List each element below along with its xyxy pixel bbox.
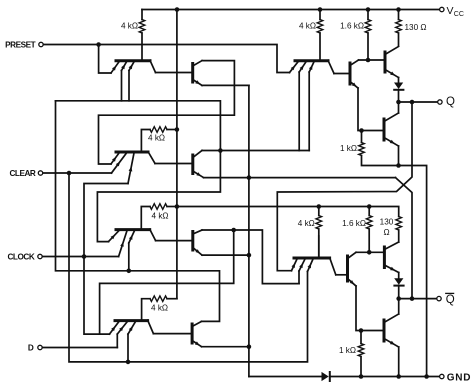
transistor Q1 emitter 1 <box>111 62 119 73</box>
node Vcc-R6 <box>366 7 371 12</box>
terminal GND <box>440 374 444 378</box>
node master-Q4e3 <box>127 269 132 274</box>
transistor Q1 emitter 3 <box>129 62 134 101</box>
transistor Q9 emitter 3 <box>309 62 314 151</box>
svg-text:1.6 kΩ: 1.6 kΩ <box>342 219 366 228</box>
wire Q9 collector to Q10 base <box>334 73 350 75</box>
transistor Q1 emitter 2 <box>121 62 126 101</box>
wire lower Vcc rail <box>177 207 399 217</box>
transistor Q7 emitter 2 <box>117 322 127 348</box>
terminal D <box>38 345 42 349</box>
svg-text:PRESET: PRESET <box>5 40 36 49</box>
node mesh-Q6e <box>247 253 252 258</box>
node R8 top <box>359 128 364 133</box>
node R9 Vcc <box>317 204 322 209</box>
resistor R4 4k <box>142 296 177 321</box>
node base Q11 <box>366 58 371 63</box>
wire clear <box>43 172 112 174</box>
transistor Q5 emitter 2 <box>119 231 127 257</box>
transistor Q7 emitter 1 <box>110 322 119 335</box>
transistor Q7 bar <box>115 319 148 322</box>
transistor Q12 collector <box>384 102 399 122</box>
node Q-X <box>410 100 415 105</box>
transistor Q3 emitter 1 <box>111 153 119 164</box>
transistor Q4 collector <box>193 151 202 158</box>
wire Q7 collector to Q8 base <box>153 333 191 335</box>
wire Q10 collector to node <box>359 59 386 61</box>
wire clock <box>43 256 119 258</box>
transistor Q4 bar <box>191 155 194 174</box>
node Q12 emitter <box>396 163 401 168</box>
transistor Q8 collector <box>192 321 201 326</box>
resistor R7 130 <box>396 10 402 47</box>
svg-text:CC: CC <box>454 11 464 18</box>
svg-text:1.6 kΩ: 1.6 kΩ <box>340 22 364 31</box>
svg-text:4 kΩ: 4 kΩ <box>148 133 165 142</box>
wire preset to Q1 e1 <box>99 45 111 74</box>
resistor R9 4k <box>316 207 322 257</box>
transistor Q16 emitter <box>384 339 399 377</box>
label R3 4k <box>152 211 169 220</box>
terminal CLOCK <box>38 254 42 258</box>
transistor Q11 bar <box>384 52 387 72</box>
transistor Q8 emitter <box>192 341 202 347</box>
label R2 4k <box>148 133 165 142</box>
svg-text:4 kΩ: 4 kΩ <box>298 219 315 228</box>
node Q4coll-junction <box>218 148 223 153</box>
node Vcc-R5 <box>318 7 323 12</box>
wire emitter mesh <box>248 85 250 376</box>
diode D1 <box>249 372 440 381</box>
transistor Q1 collector <box>150 60 156 72</box>
node clock <box>82 254 87 259</box>
transistor Q6 bar <box>191 232 194 251</box>
transistor Q5 bar <box>116 228 150 231</box>
node Q6coll-junction <box>231 228 236 233</box>
wire clear down <box>69 173 308 362</box>
node Vcc-R7 <box>396 7 401 12</box>
node R12 top <box>359 328 364 333</box>
node Q-diode <box>396 100 401 105</box>
svg-text:4 kΩ: 4 kΩ <box>121 22 138 31</box>
node GND R12 <box>359 374 364 379</box>
transistor Q3 emitter 3 <box>84 153 134 334</box>
node GND Q16 <box>396 374 401 379</box>
terminal Q <box>438 100 442 104</box>
svg-text:D: D <box>28 343 34 352</box>
resistor R12 1k <box>358 331 364 377</box>
resistor R5 4k <box>317 10 323 60</box>
node clear <box>67 171 72 176</box>
svg-text:V: V <box>447 5 454 17</box>
node R3 Vcc <box>175 204 180 209</box>
transistor Q13 emitter 3 <box>308 259 314 272</box>
transistor Q9 collector <box>328 60 334 73</box>
wire Q6 collector line <box>202 230 299 284</box>
wire Vcc center <box>176 10 178 299</box>
transistor Q5 emitter 1 <box>109 231 120 242</box>
svg-text:1 kΩ: 1 kΩ <box>339 346 356 355</box>
transistor Q7 emitter 3 <box>128 322 136 362</box>
transistor Q2 emitter <box>193 80 202 86</box>
label QBAR <box>446 293 455 306</box>
wire Q4 emitter line <box>204 177 396 179</box>
wire R9 to Q13 base <box>318 236 320 257</box>
transistor Q4 emitter <box>193 171 204 178</box>
svg-text:4 kΩ: 4 kΩ <box>299 22 316 31</box>
resistor R2 4k <box>141 127 177 152</box>
label R9 4k <box>298 219 315 228</box>
wire Q14 collector to node <box>356 251 384 253</box>
node R2 Vcc <box>175 127 180 132</box>
node QBAR-diode <box>396 296 401 301</box>
transistor Q13 emitter 2 <box>299 259 305 284</box>
wire Q1 collector to Q2 base <box>156 72 193 74</box>
label R10 1.6k <box>342 219 366 228</box>
wire D <box>43 347 118 349</box>
node preset <box>96 42 101 47</box>
transistor Q3 bar <box>116 151 148 154</box>
transistor Q8 bar <box>191 324 194 343</box>
transistor Q9 emitter 2 <box>299 62 306 151</box>
wire Q3 collector to Q4 base <box>155 163 192 165</box>
node GND R8 <box>424 374 429 379</box>
transistor Q9 emitter 1 <box>290 62 299 73</box>
transistor Q6 collector <box>193 230 202 234</box>
transistor Q5 collector <box>150 229 156 241</box>
resistor R3 4k <box>141 204 177 230</box>
wire Q6 emitter line <box>202 254 249 256</box>
svg-text:1 kΩ: 1 kΩ <box>340 144 357 153</box>
transistor Q15 collector <box>384 242 398 250</box>
transistor Q16 collector <box>384 299 399 323</box>
wire X to QBAR <box>396 178 413 299</box>
wire master clock branch <box>100 230 234 334</box>
node Vcc-R1 <box>175 7 180 12</box>
wire Q2 collector feedback <box>99 61 235 164</box>
transistor Q12 bar <box>383 119 386 140</box>
transistor Q7 collector <box>148 320 154 334</box>
wire Q5 collector to Q6 base <box>156 240 193 242</box>
transistor Q14 bar <box>346 256 349 281</box>
terminal VCC <box>440 7 444 11</box>
svg-text:Q: Q <box>446 96 455 108</box>
terminal QBAR <box>437 296 441 300</box>
transistor Q15 bar <box>383 247 386 268</box>
node R10 Vcc <box>367 204 372 209</box>
wire Q to X <box>277 102 412 271</box>
transistor Q12 emitter <box>384 138 399 166</box>
label R11 130 <box>380 218 394 238</box>
transistor Q11 collector <box>385 47 399 55</box>
diode D3 <box>394 273 403 299</box>
label D <box>28 343 34 352</box>
label R4 4k <box>151 304 168 313</box>
label CLOCK <box>7 252 34 261</box>
label VCC <box>447 5 464 18</box>
transistor Q9 bar <box>295 59 328 62</box>
node mesh-Q8e <box>247 344 252 349</box>
transistor Q3 collector <box>148 152 155 164</box>
label R6 1.6k <box>340 22 364 31</box>
wire master node B <box>56 101 220 322</box>
svg-text:4 kΩ: 4 kΩ <box>152 211 169 220</box>
transistor Q10 emitter <box>350 82 362 131</box>
transistor Q5 emitter 3 <box>129 231 135 271</box>
svg-text:130 Ω: 130 Ω <box>405 23 427 32</box>
node clear-Q7e3 <box>126 360 131 365</box>
terminal PRESET <box>39 42 43 46</box>
resistor R8 1k <box>359 131 427 377</box>
resistor R10 1.6k <box>366 207 372 253</box>
diode D2 <box>394 78 403 103</box>
label PRESET <box>5 40 36 49</box>
wire Vcc rail <box>142 9 439 11</box>
transistor Q14 emitter <box>348 279 362 331</box>
wire QBAR output <box>399 298 437 300</box>
svg-text:Q: Q <box>446 294 455 306</box>
transistor Q13 emitter 1 <box>292 259 298 271</box>
svg-text:CLEAR: CLEAR <box>9 169 35 178</box>
transistor Q11 emitter <box>385 70 399 78</box>
wire Q8 emitter line <box>202 346 249 348</box>
label R7 130 <box>405 23 427 32</box>
wire Q16 base <box>361 330 384 332</box>
resistor R11 130 <box>396 217 402 243</box>
transistor Q1 bar <box>116 59 150 62</box>
svg-text:CLOCK: CLOCK <box>7 252 34 261</box>
wire master node A <box>56 101 221 242</box>
wire Q4 collector line <box>202 150 309 152</box>
transistor Q13 collector <box>330 258 336 275</box>
wire Q2 emitter <box>202 84 249 86</box>
wire preset <box>44 45 290 73</box>
label R1 4k <box>121 22 138 31</box>
transistor Q2 collector <box>193 61 202 66</box>
svg-text:GND: GND <box>447 373 471 384</box>
transistor Q2 bar <box>191 64 194 83</box>
resistor R1 4k <box>139 10 145 60</box>
label R12 1k <box>339 346 356 355</box>
node mesh-X <box>247 175 252 180</box>
transistor Q15 emitter <box>384 265 398 273</box>
label GND <box>447 373 471 384</box>
wire Q output <box>399 101 438 103</box>
transistor Q16 bar <box>383 320 386 341</box>
transistor Q3 emitter 2 <box>112 153 127 173</box>
label R5 4k <box>299 22 316 31</box>
terminal CLEAR <box>38 171 42 175</box>
resistor R6 1.6k <box>365 10 371 61</box>
svg-text:4 kΩ: 4 kΩ <box>151 304 168 313</box>
node base Q15 <box>367 250 372 255</box>
wire Q12 base <box>362 130 385 132</box>
wire Q13 collector to Q14 base <box>336 274 348 276</box>
label CLEAR <box>9 169 35 178</box>
svg-text:Ω: Ω <box>383 228 389 237</box>
transistor Q14 collector <box>348 252 357 258</box>
node QBAR-X <box>410 296 415 301</box>
svg-text:130: 130 <box>380 218 394 227</box>
transistor Q10 bar <box>349 63 352 84</box>
transistor Q13 bar <box>294 257 330 260</box>
label Q <box>446 96 455 108</box>
label R8 1k <box>340 144 357 153</box>
transistor Q6 emitter <box>193 248 202 256</box>
transistor Q10 collector <box>350 60 359 66</box>
